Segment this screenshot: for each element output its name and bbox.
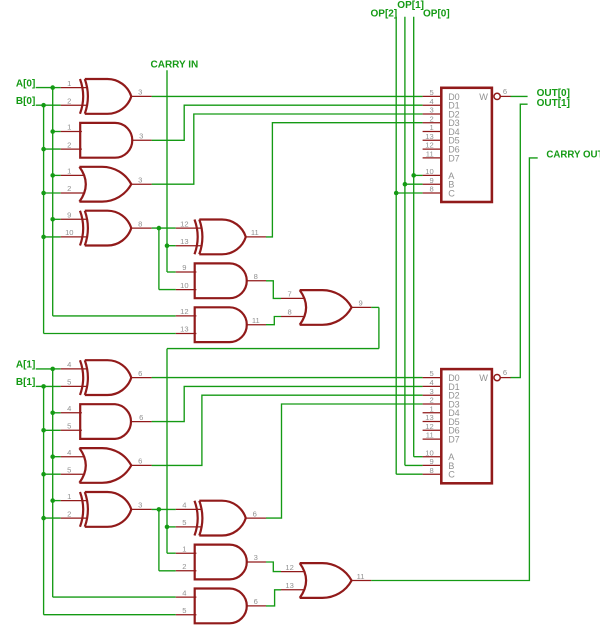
XOR gate IC3B: A[1]^B[1] (pins 4,5 -> 6) (61, 360, 152, 395)
svg-text:3: 3 (138, 175, 142, 184)
wire OR1 out to mux IC1 D2 (152, 114, 423, 184)
svg-text:8: 8 (287, 308, 291, 317)
net label OUT[0] (537, 88, 570, 99)
svg-text:12: 12 (180, 307, 188, 316)
svg-text:5: 5 (182, 518, 186, 527)
svg-text:5: 5 (67, 378, 71, 387)
svg-text:OP[0]: OP[0] (423, 9, 450, 20)
svg-text:5: 5 (429, 88, 433, 97)
svg-text:12: 12 (285, 563, 293, 572)
multiplexer IC2 74151 (8:1 mux, bit 1) with pins D0-D7, A, B, C, W pin6 (423, 368, 511, 483)
svg-text:4: 4 (67, 360, 71, 369)
wire OR4 output (carry) right-up to CARRY OUT label (371, 158, 538, 581)
svg-text:3: 3 (429, 106, 433, 115)
svg-text:7: 7 (287, 290, 291, 299)
svg-text:D7: D7 (448, 435, 460, 445)
svg-text:5: 5 (429, 369, 433, 378)
svg-text:12: 12 (425, 422, 433, 431)
svg-text:B[1]: B[1] (16, 377, 35, 388)
svg-text:13: 13 (425, 413, 433, 422)
svg-text:13: 13 (425, 132, 433, 141)
wire mux IC1 W output to OUT[0] label (510, 95, 527, 97)
svg-text:5: 5 (67, 465, 71, 474)
net XOR5 output (A1^B1): junction, to XOR6 pin4 and AND5 pin2 (152, 507, 176, 571)
OR gate IC5C: A[1]|B[1] (pins 4,5 -> 6) (61, 448, 152, 483)
svg-text:1: 1 (429, 123, 433, 132)
svg-text:D7: D7 (448, 153, 460, 163)
svg-text:OP[2]: OP[2] (371, 9, 398, 20)
svg-text:9: 9 (429, 176, 433, 185)
svg-text:5: 5 (67, 422, 71, 431)
wire XOR1 out to mux IC1 D0 (152, 95, 423, 97)
svg-text:1: 1 (182, 545, 186, 554)
svg-text:2: 2 (67, 96, 71, 105)
svg-text:10: 10 (65, 228, 73, 237)
svg-text:13: 13 (285, 581, 293, 590)
svg-text:8: 8 (138, 219, 142, 228)
wire XOR4 out to mux IC2 D0 (152, 377, 423, 379)
net CARRY IN vertical wire, junction to XOR3 pin13, corner to AND2 pin9 (165, 70, 176, 272)
svg-text:W: W (479, 92, 488, 102)
svg-text:9: 9 (182, 263, 186, 272)
net label OP[2] (371, 9, 398, 20)
svg-text:W: W (479, 373, 488, 383)
wire OR3 out to mux IC2 D2 (152, 395, 423, 465)
svg-text:11: 11 (251, 228, 259, 237)
AND gate IC4A: A[0]&B[0] (pins 1,2 -> 3) (61, 123, 152, 158)
svg-text:6: 6 (253, 509, 257, 518)
svg-text:6: 6 (254, 597, 258, 606)
wire mux IC2 W output up to OUT[1] label (510, 104, 527, 377)
net label A[0] (16, 78, 35, 89)
svg-text:1: 1 (67, 79, 71, 88)
AND gate IC4D: A&B (pins 12,13 -> 11) (176, 307, 266, 342)
wire XOR6 out (sum1) to mux IC2 D3 (266, 404, 423, 518)
svg-text:A[0]: A[0] (16, 78, 35, 89)
svg-text:4: 4 (429, 97, 433, 106)
svg-text:13: 13 (180, 237, 188, 246)
net B[0] wire and junctions (36, 103, 176, 334)
AND gate IC7B: A&B (pins 4,5 -> 6) (176, 588, 266, 623)
svg-text:2: 2 (67, 140, 71, 149)
svg-text:8: 8 (429, 185, 433, 194)
svg-text:4: 4 (182, 501, 186, 510)
svg-text:8: 8 (429, 466, 433, 475)
net OP[2] vertical to mux C pins, junction at IC1 pin8 (394, 17, 423, 474)
svg-text:B[0]: B[0] (16, 96, 35, 107)
svg-text:3: 3 (139, 132, 143, 141)
wire AND2 out to OR2 pin7 (266, 281, 281, 299)
svg-text:3: 3 (429, 387, 433, 396)
svg-text:12: 12 (425, 141, 433, 150)
svg-text:2: 2 (429, 114, 433, 123)
AND gate IC4B: A[1]&B[1] (pins 4,5 -> 6) (61, 404, 152, 439)
svg-text:6: 6 (138, 457, 142, 466)
svg-text:8: 8 (254, 272, 258, 281)
svg-text:10: 10 (425, 167, 433, 176)
wire AND4 out to mux IC2 D1 (152, 386, 423, 421)
svg-text:CARRY IN: CARRY IN (151, 60, 199, 71)
svg-text:3: 3 (254, 553, 258, 562)
svg-text:6: 6 (503, 87, 507, 96)
wire AND1 out to mux IC1 D1 (152, 105, 423, 140)
svg-text:13: 13 (180, 325, 188, 334)
svg-text:11: 11 (426, 431, 434, 440)
svg-text:1: 1 (67, 123, 71, 132)
wire AND5 out to OR4 pin12 (266, 562, 281, 572)
wire AND3 out to OR2 pin8 (266, 317, 281, 325)
XOR gate IC3A: A[0]^B[0] (pins 1,2 -> 3) (61, 79, 152, 114)
svg-text:2: 2 (182, 562, 186, 571)
AND gate IC4C: (A^B)&Cin (pins 9,10 -> 8) (176, 263, 266, 298)
svg-text:10: 10 (425, 448, 433, 457)
svg-text:10: 10 (180, 281, 188, 290)
XOR gate IC3D: sum0 = (A^B)^Cin (pins 12,13 -> 11) (176, 219, 266, 254)
svg-text:3: 3 (138, 88, 142, 97)
multiplexer IC1 74151 (8:1 mux, bit 0) with pins D0-D7, A, B, C, W pin6 (423, 87, 511, 202)
net label CARRY OUT (546, 150, 600, 161)
svg-text:4: 4 (67, 404, 71, 413)
net carry0 from OR2 output down-left-down to XOR6 pin5 and AND5 pin1 (165, 307, 379, 553)
svg-text:A[1]: A[1] (16, 360, 35, 371)
svg-text:9: 9 (67, 211, 71, 220)
svg-text:11: 11 (357, 572, 365, 581)
svg-text:5: 5 (182, 606, 186, 615)
net label OP[1] (397, 0, 424, 11)
svg-text:1: 1 (67, 167, 71, 176)
OR gate IC5B: carry0 (pins 7,8 -> 9) (281, 290, 371, 325)
wire XOR3 out (sum0) to mux IC1 D3 (266, 123, 423, 237)
XOR gate IC6A: A[1]^B[1] (pins 1,2 -> 3) (61, 492, 152, 527)
svg-text:11: 11 (252, 316, 260, 325)
net OP[0] vertical to mux A pins, junction at IC1 pin10 (411, 17, 422, 457)
svg-text:9: 9 (429, 457, 433, 466)
svg-text:9: 9 (358, 299, 362, 308)
svg-text:6: 6 (138, 369, 142, 378)
svg-text:6: 6 (139, 413, 143, 422)
net label OUT[1] (537, 98, 570, 109)
svg-text:4: 4 (67, 448, 71, 457)
net A[0] wire and junctions (36, 85, 176, 316)
net label B[0] (16, 96, 35, 107)
svg-text:4: 4 (182, 588, 186, 597)
svg-text:OUT[1]: OUT[1] (537, 98, 570, 109)
svg-text:12: 12 (180, 219, 188, 228)
net XOR2 output (A0^B0): junction, to XOR3 pin12 and AND2 pin10 (152, 226, 176, 290)
net label A[1] (16, 360, 35, 371)
svg-text:CARRY OUT: CARRY OUT (546, 150, 600, 161)
XOR gate IC3C: A[0]^B[0] (pins 9,10 -> 8) (61, 211, 152, 246)
net label B[1] (16, 377, 35, 388)
svg-text:11: 11 (426, 150, 434, 159)
XOR gate IC6B: sum1 (pins 4,5 -> 6) (176, 501, 266, 536)
svg-text:2: 2 (67, 509, 71, 518)
wire AND6 out to OR4 pin13 (266, 590, 281, 606)
svg-text:OP[1]: OP[1] (397, 0, 424, 11)
net label CARRY IN (151, 60, 199, 71)
svg-text:C: C (448, 188, 455, 198)
net A[1] wire and junctions (36, 367, 176, 597)
net B[1] wire and junctions (36, 384, 176, 615)
net OP[1] vertical to mux B pins, junction at IC1 pin9 (403, 17, 423, 466)
net label OP[0] (423, 9, 450, 20)
svg-text:6: 6 (503, 368, 507, 377)
AND gate IC7A: (A^B)&C0 (pins 1,2 -> 3) (176, 545, 266, 580)
svg-text:2: 2 (429, 396, 433, 405)
OR gate IC5A: A[0]|B[0] (pins 1,2 -> 3) (61, 167, 152, 202)
svg-text:1: 1 (67, 492, 71, 501)
OR gate IC5D: carry out (pins 12,13 -> 11) (281, 563, 371, 598)
svg-text:C: C (448, 470, 455, 480)
svg-text:4: 4 (429, 378, 433, 387)
svg-text:1: 1 (429, 404, 433, 413)
svg-text:2: 2 (67, 184, 71, 193)
svg-text:3: 3 (138, 501, 142, 510)
